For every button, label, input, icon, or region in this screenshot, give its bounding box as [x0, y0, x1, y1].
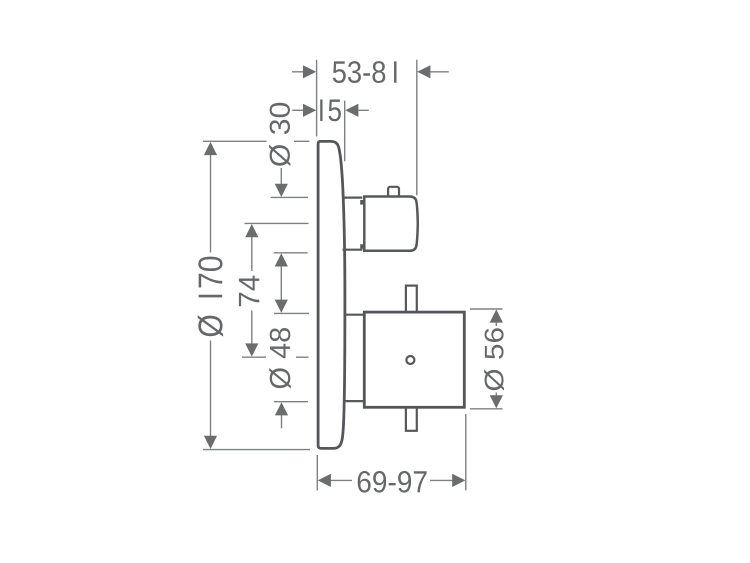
handle body — [364, 197, 418, 251]
dim 69-97 left extension line — [316, 455, 318, 490]
valve body box — [364, 312, 464, 407]
dim D30 top extension line — [271, 196, 308, 198]
dim D56 label (rotated) — [484, 328, 504, 390]
dim 15 left arrow — [292, 104, 316, 117]
dim D56 line and arrows — [490, 309, 503, 408]
dim 74 top extension line — [245, 222, 309, 224]
dim 53-81 left extension line — [316, 60, 318, 137]
dim D30 bottom arrow joined with D48 top arrow — [275, 253, 288, 312]
dim D56 top extension line — [470, 308, 503, 310]
dim 53-81 left arrow — [292, 65, 316, 78]
dim 69-97 label — [358, 471, 427, 493]
dim D48 label (rotated) — [269, 328, 291, 389]
dim 53-81 right arrow — [417, 65, 449, 78]
handle nub — [388, 187, 399, 198]
valve top stem — [406, 286, 417, 313]
dim D48 top extension line — [274, 312, 309, 314]
dim D30 label (rotated) — [269, 103, 290, 166]
dim 53-81 label — [333, 61, 397, 83]
valve body neck — [344, 315, 364, 401]
dim D56 bottom extension line — [470, 408, 503, 410]
dim D170 label (rotated) — [198, 257, 223, 337]
dim 74 label (rotated) — [239, 276, 259, 307]
dim D170 line and arrows — [204, 142, 217, 449]
dim 53-81 right extension line — [416, 60, 418, 196]
dim D170 top extension line (broken by D30 text) — [203, 140, 310, 142]
dim 74 bottom extension line (broken by D48 text) — [242, 356, 309, 358]
dim D170 bottom extension line — [203, 449, 310, 451]
valve bottom stem — [406, 407, 417, 431]
escutcheon plate (side view) — [318, 141, 345, 448]
screw circle — [406, 356, 414, 364]
dim D48 bottom arrow — [275, 402, 288, 428]
dim D48 bottom extension line — [274, 401, 308, 403]
dim D30 leader and top arrow — [275, 168, 288, 197]
dim 69-97 line and arrows — [318, 474, 466, 487]
dim 15 right extension line — [344, 101, 346, 162]
dim 15 label — [320, 100, 341, 122]
dim 74 line and arrows — [245, 224, 258, 357]
dim 15 right arrow — [345, 104, 369, 117]
dim D30 bottom extension line — [274, 252, 308, 254]
dim 69-97 right extension line — [465, 414, 467, 491]
handle neck — [343, 198, 364, 250]
